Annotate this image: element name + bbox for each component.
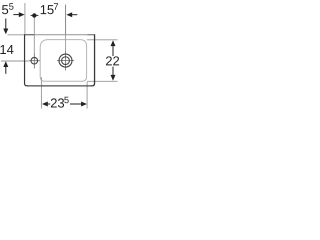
dim 23.5 right tail bbox=[70, 103, 82, 105]
dim 22 arrowhead pointing down bbox=[111, 75, 116, 81]
background bbox=[0, 0, 120, 120]
extension line: left edge extended up bbox=[24, 3, 26, 34]
extension line: left hole centerline up to dot bbox=[33, 17, 35, 53]
tap hole inner circle bbox=[62, 57, 70, 65]
label 23.5 main bbox=[51, 98, 64, 107]
tap hole crosshair horizontal bbox=[57, 60, 74, 62]
dim 5.5 arrowhead bbox=[19, 12, 25, 17]
label 23.5 sup bbox=[64, 97, 68, 103]
label 14 bbox=[0, 45, 13, 54]
dim 23.5 arrowhead pointing right bbox=[81, 102, 87, 107]
inner basin bowl outline bbox=[40, 40, 86, 82]
washbasin outer outline: top back edge left dark segment bbox=[24, 34, 34, 36]
washbasin outer outline: bottom front edge bbox=[28, 85, 92, 87]
extension line: basin left extended down bbox=[40, 77, 42, 109]
dim 5.5 leader line bbox=[13, 14, 19, 16]
dim 15.7 tail bbox=[72, 14, 78, 16]
dim 14 arrowhead pointing down bbox=[3, 29, 8, 35]
dim 15.7 arrowhead pointing left bbox=[66, 12, 72, 17]
dim 22 lower tail bbox=[112, 67, 114, 76]
washbasin outer outline: left edge and bottom-left corner bbox=[25, 34, 29, 86]
dim 14 arrowhead pointing up bbox=[3, 61, 8, 67]
dim 14 bottom arrow tail bbox=[5, 67, 7, 74]
extension line: tap hole centerline inside basin bbox=[65, 35, 67, 52]
left hole circle bbox=[31, 57, 38, 64]
tap hole crosshair vertical bbox=[65, 51, 67, 70]
extension line: basin bottom extended right bbox=[87, 80, 118, 82]
washbasin outer outline: top back edge middle light segment bbox=[34, 34, 87, 36]
dimension dot at hole centerline bbox=[32, 13, 36, 17]
extension line: basin right extended down bbox=[86, 82, 88, 109]
washbasin outer outline: right edge and bottom-right corner bbox=[91, 34, 95, 86]
left hole crosshair vertical bbox=[33, 53, 35, 69]
extension line: basin top extended right bbox=[87, 39, 118, 41]
washbasin outer outline: top back edge right dark segment bbox=[88, 34, 96, 36]
left hole crosshair horizontal bbox=[29, 60, 40, 62]
dim line stub through dot bbox=[31, 14, 39, 16]
label 22 bbox=[106, 56, 119, 65]
tap hole outer circle bbox=[59, 54, 72, 67]
extension line: top edge extended left bbox=[8, 34, 25, 36]
dim 23.5 left tail bbox=[48, 103, 51, 105]
label 15.7 sup bbox=[54, 3, 58, 9]
dim 22 upper tail bbox=[112, 46, 114, 56]
label 15.7 main bbox=[41, 5, 54, 14]
dim 22 arrowhead pointing up bbox=[111, 40, 116, 46]
extension line: tap hole centerline up bbox=[65, 5, 67, 35]
dim 23.5 arrowhead pointing left bbox=[42, 102, 48, 107]
label 5.5 sup bbox=[9, 3, 13, 9]
extension line: hole centerline extended left bbox=[1, 60, 29, 62]
dim 14 top arrow tail bbox=[5, 19, 7, 30]
label 5.5 main bbox=[2, 5, 8, 14]
